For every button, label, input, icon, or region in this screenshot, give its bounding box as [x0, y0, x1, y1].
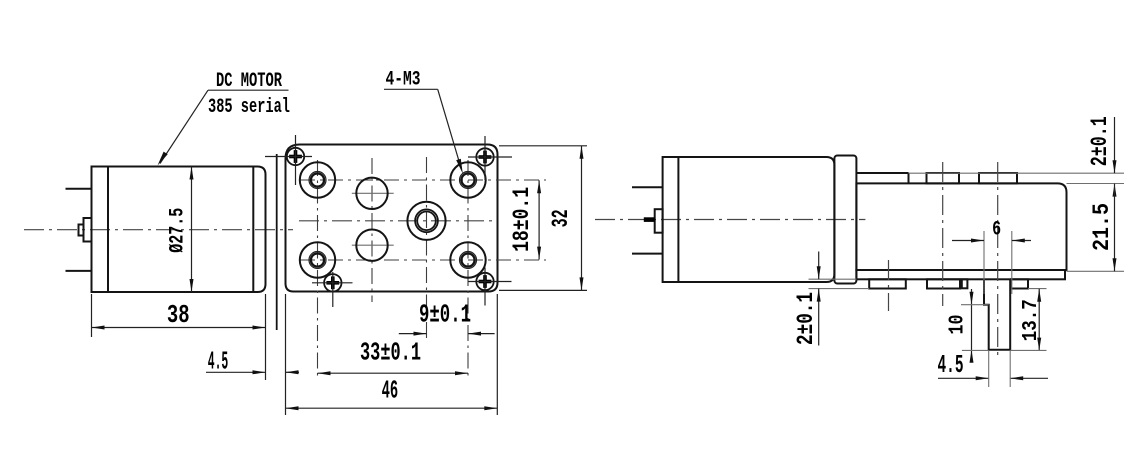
hole H4 M3 bottom-right — [450, 242, 485, 277]
output shaft (side view) — [984, 279, 1010, 350]
screw S3 phillips bottom-left — [312, 272, 353, 307]
wire: extension line boss bottom left — [809, 288, 870, 290]
hole H2 M3 top-right — [450, 162, 485, 197]
dimension 6 shaft diameter — [952, 218, 1031, 242]
motor body can (side view) — [663, 157, 835, 282]
wire: extension line bottom plate left — [809, 278, 857, 280]
svg-text:4-M3: 4-M3 — [386, 69, 421, 92]
hole H6 middle lower — [356, 230, 387, 261]
boss B4 bottom (side view) — [927, 279, 960, 288]
gearbox bottom plate (side view) — [856, 270, 1065, 279]
screw S2 phillips top-right — [468, 136, 512, 180]
svg-text:33±0.1: 33±0.1 — [360, 337, 421, 367]
dimension 2±0.1 boss height bottom — [793, 252, 821, 346]
motor end cap line (front view) — [107, 167, 109, 293]
wire: extension line gearbox bottom right — [1067, 270, 1125, 272]
node: gear column centerline 1 (side view) — [942, 162, 944, 306]
svg-text:18±0.1: 18±0.1 — [509, 187, 535, 252]
svg-text:13.7: 13.7 — [1020, 299, 1043, 341]
svg-text:38: 38 — [167, 300, 190, 330]
node: left hole column centerline — [317, 160, 319, 378]
boss B2 top (side view) — [979, 173, 1017, 183]
wire: hidden shaft lines (side view) — [984, 231, 1012, 294]
svg-text:385 serial: 385 serial — [208, 96, 290, 119]
boss B5 bottom (side view) — [1011, 279, 1028, 288]
node: middle hole row marks — [352, 193, 394, 245]
gearbox body (side view) — [856, 183, 1066, 270]
node: lower hole row centerline — [300, 259, 546, 261]
dimension 4.5 flange gap — [206, 294, 299, 415]
wire: motor axis centerline (side view) — [595, 219, 865, 221]
motor terminal tab upper (side view) — [632, 186, 663, 188]
hole H5 middle upper — [356, 178, 387, 209]
motor rear boss (side view) — [644, 209, 663, 233]
boss B4a small tab bottom (side view) — [962, 279, 968, 288]
node: shaft centerline (side view) — [997, 162, 999, 358]
node: gear column centerline 2 (side view) — [888, 260, 890, 311]
motor end cap line (side view) — [677, 157, 679, 282]
dimension 2±0.1 boss height top — [1087, 116, 1117, 196]
svg-text:2±0.1: 2±0.1 — [1087, 116, 1113, 166]
wire: extension line top face — [909, 172, 1125, 174]
svg-text:DC MOTOR: DC MOTOR — [216, 70, 282, 93]
motor body can (front view) — [92, 167, 266, 293]
svg-text:9±0.1: 9±0.1 — [419, 300, 471, 330]
node: upper hole row centerline — [300, 179, 546, 181]
wire: extension line gearbox top — [1067, 183, 1125, 185]
dimension 21.5 gearbox height — [1089, 184, 1117, 272]
svg-text:4.5: 4.5 — [938, 350, 964, 380]
dimension 9±0.1 output offset — [399, 300, 495, 336]
svg-text:21.5: 21.5 — [1089, 203, 1115, 251]
svg-text:10: 10 — [946, 315, 969, 335]
node: plate horizontal centerline — [299, 220, 497, 222]
output shaft end-on (front view) — [407, 202, 445, 240]
dimension Ø27.5 motor diameter — [166, 167, 193, 293]
dimension 46 plate width — [286, 294, 498, 415]
gearbox flange (side view) — [834, 156, 856, 284]
node: output shaft column centerline — [426, 157, 428, 340]
motor rear boss (front view) — [79, 218, 92, 242]
screw S1 phillips top-left — [265, 135, 312, 185]
screw S4 phillips bottom-right — [468, 268, 512, 306]
dimension 38 motor length — [92, 294, 266, 380]
dimension 32 plate height — [499, 146, 587, 291]
hole H3 M3 bottom-left — [300, 242, 335, 277]
label leader DC MOTOR 385 serial — [158, 70, 291, 165]
wire: extension line boss bottom right — [1028, 288, 1047, 290]
dimension 10 shaft flat length — [946, 289, 988, 363]
node: right hole column centerline — [467, 160, 469, 378]
svg-text:32: 32 — [548, 209, 574, 227]
node: middle hole column centerline — [371, 158, 373, 302]
gearbox face plate (front view) — [286, 145, 498, 292]
boss B1 top (side view) — [927, 173, 960, 183]
label leader 4-M3 — [384, 69, 463, 174]
motor terminal tab lower (front view) — [66, 270, 92, 272]
svg-text:6: 6 — [992, 218, 1001, 241]
boss B3 bottom (side view) — [869, 279, 906, 288]
motor terminal tab upper (front view) — [66, 188, 92, 190]
dimension 4.5 shaft across flat — [938, 350, 1049, 387]
hole H1 M3 top-left — [300, 162, 335, 197]
gearbox flange edge (front view) — [276, 154, 278, 330]
gearbox top plateau (side view) — [856, 173, 908, 183]
svg-text:Ø27.5: Ø27.5 — [166, 208, 189, 253]
motor terminal tab lower (side view) — [632, 253, 663, 255]
wire: motor axis centerline (front view) — [24, 229, 293, 231]
svg-text:4.5: 4.5 — [208, 347, 229, 377]
dimension 13.7 shaft length — [1010, 289, 1046, 351]
dimension 18±0.1 hole row spacing — [509, 180, 541, 259]
svg-text:2±0.1: 2±0.1 — [793, 292, 819, 345]
svg-text:46: 46 — [382, 376, 399, 406]
dimension 33±0.1 hole spacing — [318, 337, 469, 375]
